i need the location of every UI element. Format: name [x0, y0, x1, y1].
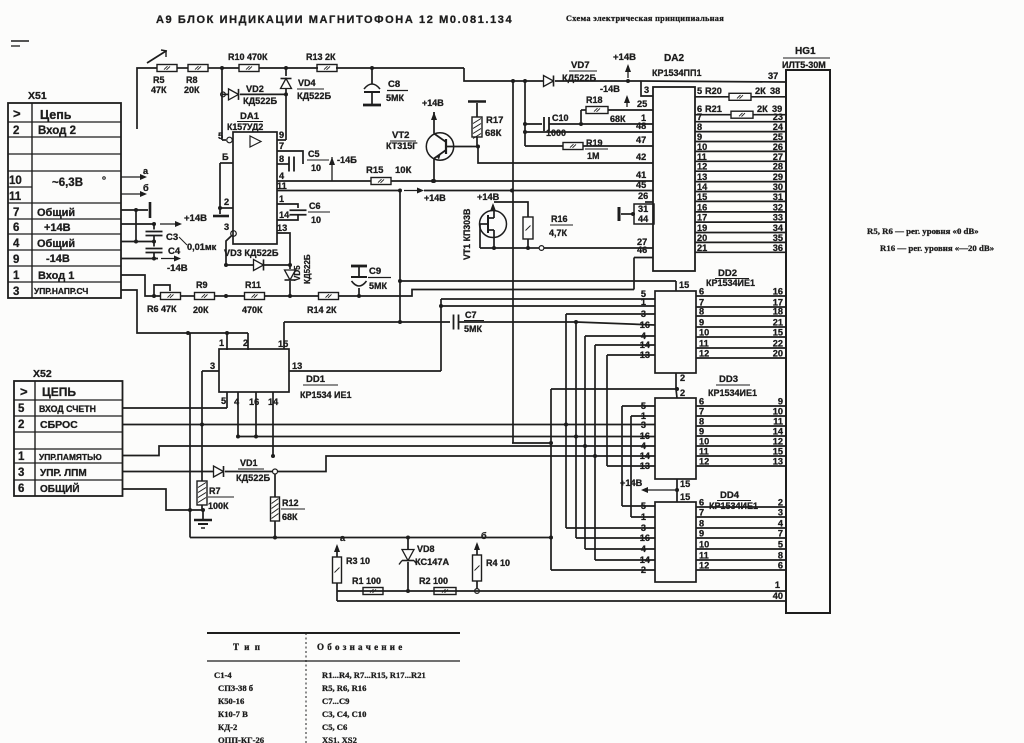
svg-text:С10: С10	[552, 113, 569, 123]
DA2 pin 7 to HG1 23	[695, 112, 786, 122]
wire top to VD7	[511, 79, 543, 83]
svg-text:2: 2	[680, 388, 685, 398]
svg-text:3: 3	[224, 222, 229, 232]
resistor R8	[184, 65, 208, 96]
DA2 pin 14 to HG1 30	[695, 182, 786, 192]
DD1 pin 4	[234, 392, 240, 439]
DD2 pin 8 to HG1 18	[696, 307, 786, 317]
wire row11 lamp b	[121, 183, 149, 197]
wire sbros	[123, 423, 656, 427]
svg-text:15: 15	[278, 339, 288, 349]
svg-text:3: 3	[13, 286, 19, 298]
DD4 left pin labels	[640, 501, 651, 575]
svg-text:7: 7	[279, 141, 284, 151]
svg-text:5МК: 5МК	[386, 93, 405, 103]
plus 14V arrow top	[613, 52, 636, 83]
wire C7 line from DD1 pin15	[284, 320, 450, 324]
svg-text:>: >	[13, 106, 21, 121]
resistor R4	[473, 531, 511, 593]
IC DD2	[655, 268, 755, 373]
svg-text:30: 30	[773, 182, 783, 192]
DA1 pin 3	[224, 222, 236, 265]
svg-text:42: 42	[636, 152, 646, 162]
svg-text:КД522Б: КД522Б	[243, 96, 277, 106]
title	[156, 14, 513, 26]
svg-text:1000: 1000	[546, 128, 566, 138]
DA2 pin 12 to HG1 28	[695, 162, 786, 172]
wire VD1 to DD3 pin14	[278, 454, 656, 472]
DD3 pin 6 to HG1 9	[696, 397, 786, 407]
svg-text:СБРОС: СБРОС	[40, 419, 78, 431]
resistor R3	[333, 533, 371, 591]
svg-text:3: 3	[18, 467, 24, 479]
resistor R21 row	[695, 104, 786, 118]
wire bottom rail 1	[337, 580, 786, 591]
svg-text:С3, С4, С10: С3, С4, С10	[322, 709, 366, 719]
connector X52	[14, 381, 123, 496]
svg-text:25: 25	[637, 99, 647, 109]
svg-text:XS1, XS2: XS1, XS2	[322, 735, 357, 743]
svg-text:20: 20	[697, 233, 707, 243]
svg-text:38: 38	[770, 86, 780, 96]
DD1 pin 1	[219, 333, 227, 350]
DD2 pin 11 to HG1 22	[696, 339, 786, 349]
diode VD4	[281, 68, 332, 101]
wire x400 riser	[399, 191, 401, 323]
svg-text:R12: R12	[282, 498, 299, 508]
svg-text:КД522Б: КД522Б	[562, 73, 596, 83]
svg-text:-14В: -14В	[167, 263, 188, 274]
svg-text:2: 2	[680, 373, 685, 383]
svg-text:DA2: DA2	[664, 53, 684, 64]
IC DD1	[219, 349, 352, 400]
DA1 pin 11	[277, 181, 400, 191]
node VT2 emitter	[432, 179, 436, 183]
wire DD2 pin1 line	[439, 304, 655, 308]
IC DA2	[652, 53, 701, 271]
bus v4	[585, 336, 655, 549]
svg-text:1: 1	[641, 512, 646, 522]
svg-text:2: 2	[224, 197, 229, 207]
resistor R10	[228, 52, 268, 72]
svg-text:R15: R15	[366, 165, 384, 176]
svg-text:15: 15	[773, 328, 783, 338]
svg-text:2: 2	[778, 498, 783, 508]
svg-text:41: 41	[636, 170, 646, 180]
svg-text:14: 14	[697, 182, 708, 192]
DD4 pin 11 to HG1 8	[696, 551, 786, 561]
DA1 pin 5	[218, 131, 232, 143]
svg-text:6: 6	[18, 483, 24, 495]
svg-text:Вход 1: Вход 1	[38, 270, 74, 282]
svg-text:КР1534 ИЕ1: КР1534 ИЕ1	[300, 390, 352, 400]
DD1 pin 13	[289, 361, 441, 371]
svg-text:КД-2: КД-2	[218, 722, 237, 732]
svg-text:R14 2К: R14 2К	[307, 305, 337, 315]
svg-text:8: 8	[699, 417, 704, 427]
minus 14V bar at DA1	[213, 215, 229, 218]
svg-text:45: 45	[636, 180, 646, 190]
svg-text:9: 9	[699, 529, 704, 539]
svg-text:R9: R9	[196, 280, 208, 290]
svg-text:R17: R17	[486, 115, 503, 126]
svg-text:15: 15	[679, 280, 689, 290]
resistor R5	[151, 65, 177, 96]
svg-text:2: 2	[18, 419, 24, 431]
DA2 pin 19 to HG1 34	[695, 223, 786, 233]
capacitor C4	[146, 242, 217, 259]
DA2 pin46 label	[637, 245, 647, 255]
wire to DA2 pin3	[641, 81, 653, 96]
DD3 pin 9 to HG1 14	[696, 427, 786, 437]
resistor R12	[271, 474, 306, 538]
svg-text:-14Б: -14Б	[337, 155, 357, 165]
svg-text:R19: R19	[586, 138, 603, 148]
svg-text:а: а	[143, 166, 149, 176]
svg-text:3: 3	[644, 85, 649, 95]
svg-text:11: 11	[699, 551, 709, 561]
svg-text:DA1: DA1	[240, 111, 260, 122]
svg-text:68К: 68К	[282, 512, 298, 522]
svg-text:14: 14	[773, 427, 784, 437]
DD1 pin 14	[268, 392, 279, 458]
svg-text:+14В: +14В	[424, 193, 446, 203]
svg-text:DD4: DD4	[720, 490, 740, 501]
DA2 pin 8 to HG1 24	[695, 122, 786, 132]
svg-text:С9: С9	[369, 266, 381, 277]
DD2 pin 7 to HG1 17	[696, 298, 786, 308]
svg-text:9: 9	[778, 397, 783, 407]
wire row10 lamp a	[121, 166, 149, 180]
DA2 pin27 wire	[637, 237, 647, 247]
svg-text:13: 13	[277, 223, 287, 233]
svg-text:36: 36	[773, 243, 783, 253]
svg-text:10: 10	[311, 215, 321, 225]
svg-text:К157УД2: К157УД2	[227, 122, 263, 132]
svg-text:VD5: VD5	[293, 265, 302, 281]
DA2 pin 10 to HG1 26	[695, 142, 786, 152]
svg-text:10: 10	[773, 407, 783, 417]
svg-text:КР1534ПП1: КР1534ПП1	[652, 68, 701, 78]
wire upr pamyatyu	[123, 444, 656, 456]
DD2 pin 10 to HG1 15	[696, 328, 786, 338]
resistor R14	[307, 293, 339, 316]
svg-text:9: 9	[697, 132, 702, 142]
wire top rail	[137, 68, 513, 129]
svg-text:+14В: +14В	[620, 478, 643, 488]
node R17 base junction	[472, 137, 480, 149]
svg-text:11: 11	[697, 152, 707, 162]
svg-text:УПР. ЛПМ: УПР. ЛПМ	[40, 468, 87, 479]
X52 label	[33, 368, 52, 380]
svg-text:Х51: Х51	[28, 90, 47, 102]
diode VD7	[544, 60, 642, 87]
resistor R17	[468, 102, 503, 140]
svg-text:22: 22	[773, 339, 783, 349]
svg-text:5МК: 5МК	[369, 281, 388, 291]
svg-text:12: 12	[699, 349, 709, 359]
svg-text:15: 15	[773, 447, 783, 457]
transistor VT2	[426, 112, 472, 181]
DA2 pin 11 to HG1 27	[695, 152, 786, 162]
node pin3 net junction	[214, 294, 245, 298]
svg-text:17: 17	[697, 213, 707, 223]
svg-text:10: 10	[699, 437, 709, 447]
DA2 pin 9 to HG1 25	[695, 132, 786, 142]
svg-text:-14В: -14В	[600, 84, 620, 94]
DA1 pin 9	[277, 94, 286, 140]
op-amp DA1	[227, 111, 277, 244]
svg-text:16: 16	[640, 533, 650, 543]
svg-text:1: 1	[13, 270, 20, 282]
svg-text:4: 4	[641, 441, 647, 451]
DD2 pin 12 to HG1 20	[696, 349, 786, 359]
DD4 pin 8 to HG1 4	[696, 519, 786, 529]
IC DD4	[655, 490, 758, 582]
svg-text:С4: С4	[168, 246, 181, 257]
svg-text:5: 5	[641, 501, 646, 511]
svg-text:С5, С6: С5, С6	[322, 722, 348, 732]
svg-text:16: 16	[640, 320, 650, 330]
DD1 pin 15	[278, 322, 288, 349]
chassis tap row7	[121, 202, 150, 242]
svg-text:33: 33	[773, 213, 783, 223]
svg-text:R2 100: R2 100	[419, 576, 448, 586]
svg-text:КР1534ИЕ1: КР1534ИЕ1	[709, 501, 758, 511]
wire to DA2 pin42	[478, 147, 653, 164]
svg-text:А9 БЛОК ИНДИКАЦИИ МАГНИТОФО: А9 БЛОК ИНДИКАЦИИ МАГНИТОФОНА 12 М0.081.…	[156, 14, 513, 26]
svg-text:R21: R21	[705, 104, 722, 114]
resistor R1	[352, 576, 383, 595]
svg-text:УПР.ПАМЯТЬЮ: УПР.ПАМЯТЬЮ	[39, 452, 102, 462]
svg-text:21: 21	[773, 318, 783, 328]
svg-text:4: 4	[13, 238, 20, 250]
capacitor C7	[454, 310, 656, 334]
diode VD5	[285, 254, 313, 296]
svg-text:34: 34	[773, 223, 784, 233]
svg-text:б: б	[143, 183, 149, 193]
svg-text:14: 14	[640, 555, 651, 565]
svg-text:+14В: +14В	[44, 222, 71, 234]
svg-text:>: >	[20, 384, 28, 399]
svg-text:R1 100: R1 100	[352, 576, 381, 586]
bus v1	[551, 387, 679, 570]
svg-text:2: 2	[641, 565, 646, 575]
svg-text:15: 15	[680, 492, 690, 502]
svg-text:7: 7	[699, 407, 704, 417]
svg-text:О б о з н а ч е н и е: О б о з н а ч е н и е	[317, 642, 403, 652]
wire VD2 row	[221, 92, 288, 97]
svg-text:VD2: VD2	[246, 84, 264, 94]
svg-text:68К: 68К	[610, 114, 626, 124]
svg-text:100К: 100К	[208, 501, 229, 511]
capacitor C3	[146, 224, 188, 245]
svg-text:1: 1	[279, 194, 284, 204]
subtitle	[566, 14, 724, 23]
svg-text:3: 3	[641, 420, 646, 430]
minus 14V row9	[121, 256, 188, 275]
svg-text:3: 3	[778, 508, 783, 518]
plus 14V arrow DD4	[620, 478, 675, 493]
DD1 pin 3	[202, 361, 219, 371]
svg-text:32: 32	[773, 202, 783, 212]
svg-text:1: 1	[641, 297, 646, 307]
IC DD3	[655, 374, 757, 479]
svg-text:ВХОД СЧЕТН: ВХОД СЧЕТН	[39, 404, 96, 414]
wire DA2 pin48	[525, 121, 653, 132]
DD4 pin 12 to HG1 6	[696, 561, 786, 571]
svg-text:С3: С3	[166, 232, 178, 243]
svg-text:12: 12	[699, 561, 709, 571]
X52 pin rows text	[18, 384, 102, 495]
svg-text:ЦЕПЬ: ЦЕПЬ	[42, 385, 76, 399]
svg-text:20К: 20К	[184, 85, 200, 95]
wire Vhod1 to main	[121, 275, 161, 298]
wire C10 left rail	[523, 79, 527, 146]
wire to HG1 pin37	[641, 71, 786, 82]
svg-text:R8: R8	[186, 75, 198, 85]
DA1 pin 2	[218, 197, 233, 210]
svg-text:16: 16	[773, 287, 783, 297]
svg-text:31: 31	[638, 204, 648, 214]
DD3 pin 8 to HG1 11	[696, 417, 786, 427]
svg-text:11: 11	[699, 447, 709, 457]
svg-text:9: 9	[13, 254, 19, 266]
wire vhod schetn	[123, 407, 228, 409]
svg-text:1: 1	[219, 338, 224, 348]
resistor R7	[197, 371, 234, 511]
svg-text:DD3: DD3	[719, 374, 738, 385]
node top-left junction	[220, 66, 224, 70]
svg-text:10: 10	[697, 142, 707, 152]
svg-text:26: 26	[773, 142, 783, 152]
svg-text:2: 2	[13, 125, 19, 137]
note R5 R6 level	[867, 226, 979, 236]
display HG1	[782, 46, 830, 613]
svg-text:8: 8	[699, 307, 704, 317]
diode VD8 (zener)	[399, 537, 449, 593]
wire 14V rail down	[512, 81, 514, 443]
bus v2	[566, 314, 655, 528]
DA2 pin 13 to HG1 29	[695, 172, 786, 182]
svg-text:КТ315Г: КТ315Г	[386, 141, 417, 151]
svg-text:3: 3	[641, 523, 646, 533]
svg-text:~6,3В: ~6,3В	[52, 177, 83, 189]
svg-text:R5: R5	[153, 75, 165, 85]
svg-text:470К: 470К	[242, 305, 263, 315]
crystal at pins 31 44	[619, 204, 654, 224]
DA2 pin42 label	[636, 152, 646, 162]
svg-text:26: 26	[638, 191, 648, 201]
svg-text:Схема электрическая принципиал: Схема электрическая принципиальная	[566, 14, 724, 23]
svg-text:16: 16	[249, 397, 259, 407]
svg-text:1М: 1М	[587, 151, 600, 161]
DD2 pin 2 down	[676, 373, 685, 398]
svg-text:R16: R16	[551, 214, 568, 224]
svg-text:HG1: HG1	[795, 46, 816, 57]
DA1 pin 7	[277, 141, 303, 164]
DA2 pin41 label	[636, 170, 646, 180]
bus v3	[576, 322, 655, 538]
bus v7	[622, 406, 655, 506]
DD3 pin 10 to HG1 12	[696, 437, 786, 447]
svg-text:R1...R4, R7...R15, R17...R21: R1...R4, R7...R15, R17...R21	[322, 670, 426, 680]
svg-text:1: 1	[775, 580, 780, 590]
svg-text:Х52: Х52	[33, 368, 52, 380]
svg-text:4,7К: 4,7К	[549, 228, 568, 238]
svg-text:8: 8	[778, 551, 783, 561]
wire R14-C9	[338, 290, 634, 299]
capacitor C9	[351, 266, 391, 296]
resistor R20 row	[695, 86, 786, 100]
bus v6	[607, 355, 655, 466]
svg-text:0,01мк: 0,01мк	[187, 242, 217, 252]
DA1 pin 1	[277, 194, 298, 208]
svg-text:VT2: VT2	[392, 130, 409, 141]
svg-text:21: 21	[697, 243, 707, 253]
wire to DA2 pin46	[634, 258, 653, 290]
DA2 pin 16 to HG1 32	[695, 202, 786, 212]
DA2 pin26 label	[638, 191, 653, 202]
svg-text:С7...С9: С7...С9	[322, 696, 349, 706]
svg-text:8: 8	[697, 122, 702, 132]
svg-text:28: 28	[773, 162, 783, 172]
svg-text:УПР.НАПР.СЧ: УПР.НАПР.СЧ	[34, 286, 88, 296]
svg-text:20: 20	[773, 349, 783, 359]
DD1 pin 16	[249, 392, 259, 439]
wire upr lpm VD1	[123, 471, 214, 473]
svg-text:R20: R20	[705, 86, 722, 96]
svg-text:6: 6	[699, 287, 704, 297]
resistor R9	[193, 280, 215, 315]
svg-text:КР1534ИЕ1: КР1534ИЕ1	[706, 278, 755, 288]
svg-text:R6 47К: R6 47К	[147, 304, 177, 314]
DD3 left pin labels	[640, 401, 651, 471]
svg-text:15: 15	[680, 479, 690, 489]
svg-text:6: 6	[778, 561, 783, 571]
corner mark	[11, 41, 29, 46]
svg-text:ИЛТ5-30М: ИЛТ5-30М	[782, 60, 826, 70]
wire R15 to DA2 pin41	[391, 179, 653, 183]
plus 14V arrow VT1	[477, 192, 500, 211]
DD2 pin 9 to HG1 21	[696, 318, 786, 328]
svg-text:8: 8	[279, 154, 284, 164]
svg-text:R7: R7	[209, 486, 221, 496]
svg-text:10: 10	[699, 328, 709, 338]
R6 wiper	[154, 285, 170, 296]
resistor R11	[242, 280, 265, 315]
VT2 labels	[386, 130, 417, 151]
svg-text:12: 12	[773, 437, 783, 447]
ground	[194, 510, 212, 528]
svg-text:ОПП-КГ-26: ОПП-КГ-26	[218, 735, 265, 743]
svg-text:5: 5	[218, 131, 223, 141]
svg-text:27: 27	[773, 152, 783, 162]
DA1 pin 6 (Б)	[220, 152, 233, 214]
svg-text:3: 3	[641, 309, 646, 319]
DA2 pin 15 to HG1 31	[695, 192, 786, 202]
svg-text:R18: R18	[586, 95, 603, 105]
svg-text:5МК: 5МК	[464, 324, 483, 334]
svg-text:13: 13	[292, 361, 302, 371]
svg-text:14: 14	[640, 451, 651, 461]
svg-text:VD8: VD8	[417, 544, 435, 554]
svg-text:КР1534ИЕ1: КР1534ИЕ1	[708, 388, 757, 398]
svg-text:Т и п: Т и п	[233, 642, 261, 652]
svg-text:К10-7 В: К10-7 В	[218, 709, 248, 719]
svg-text:29: 29	[773, 172, 783, 182]
svg-text:VD7: VD7	[571, 60, 589, 71]
